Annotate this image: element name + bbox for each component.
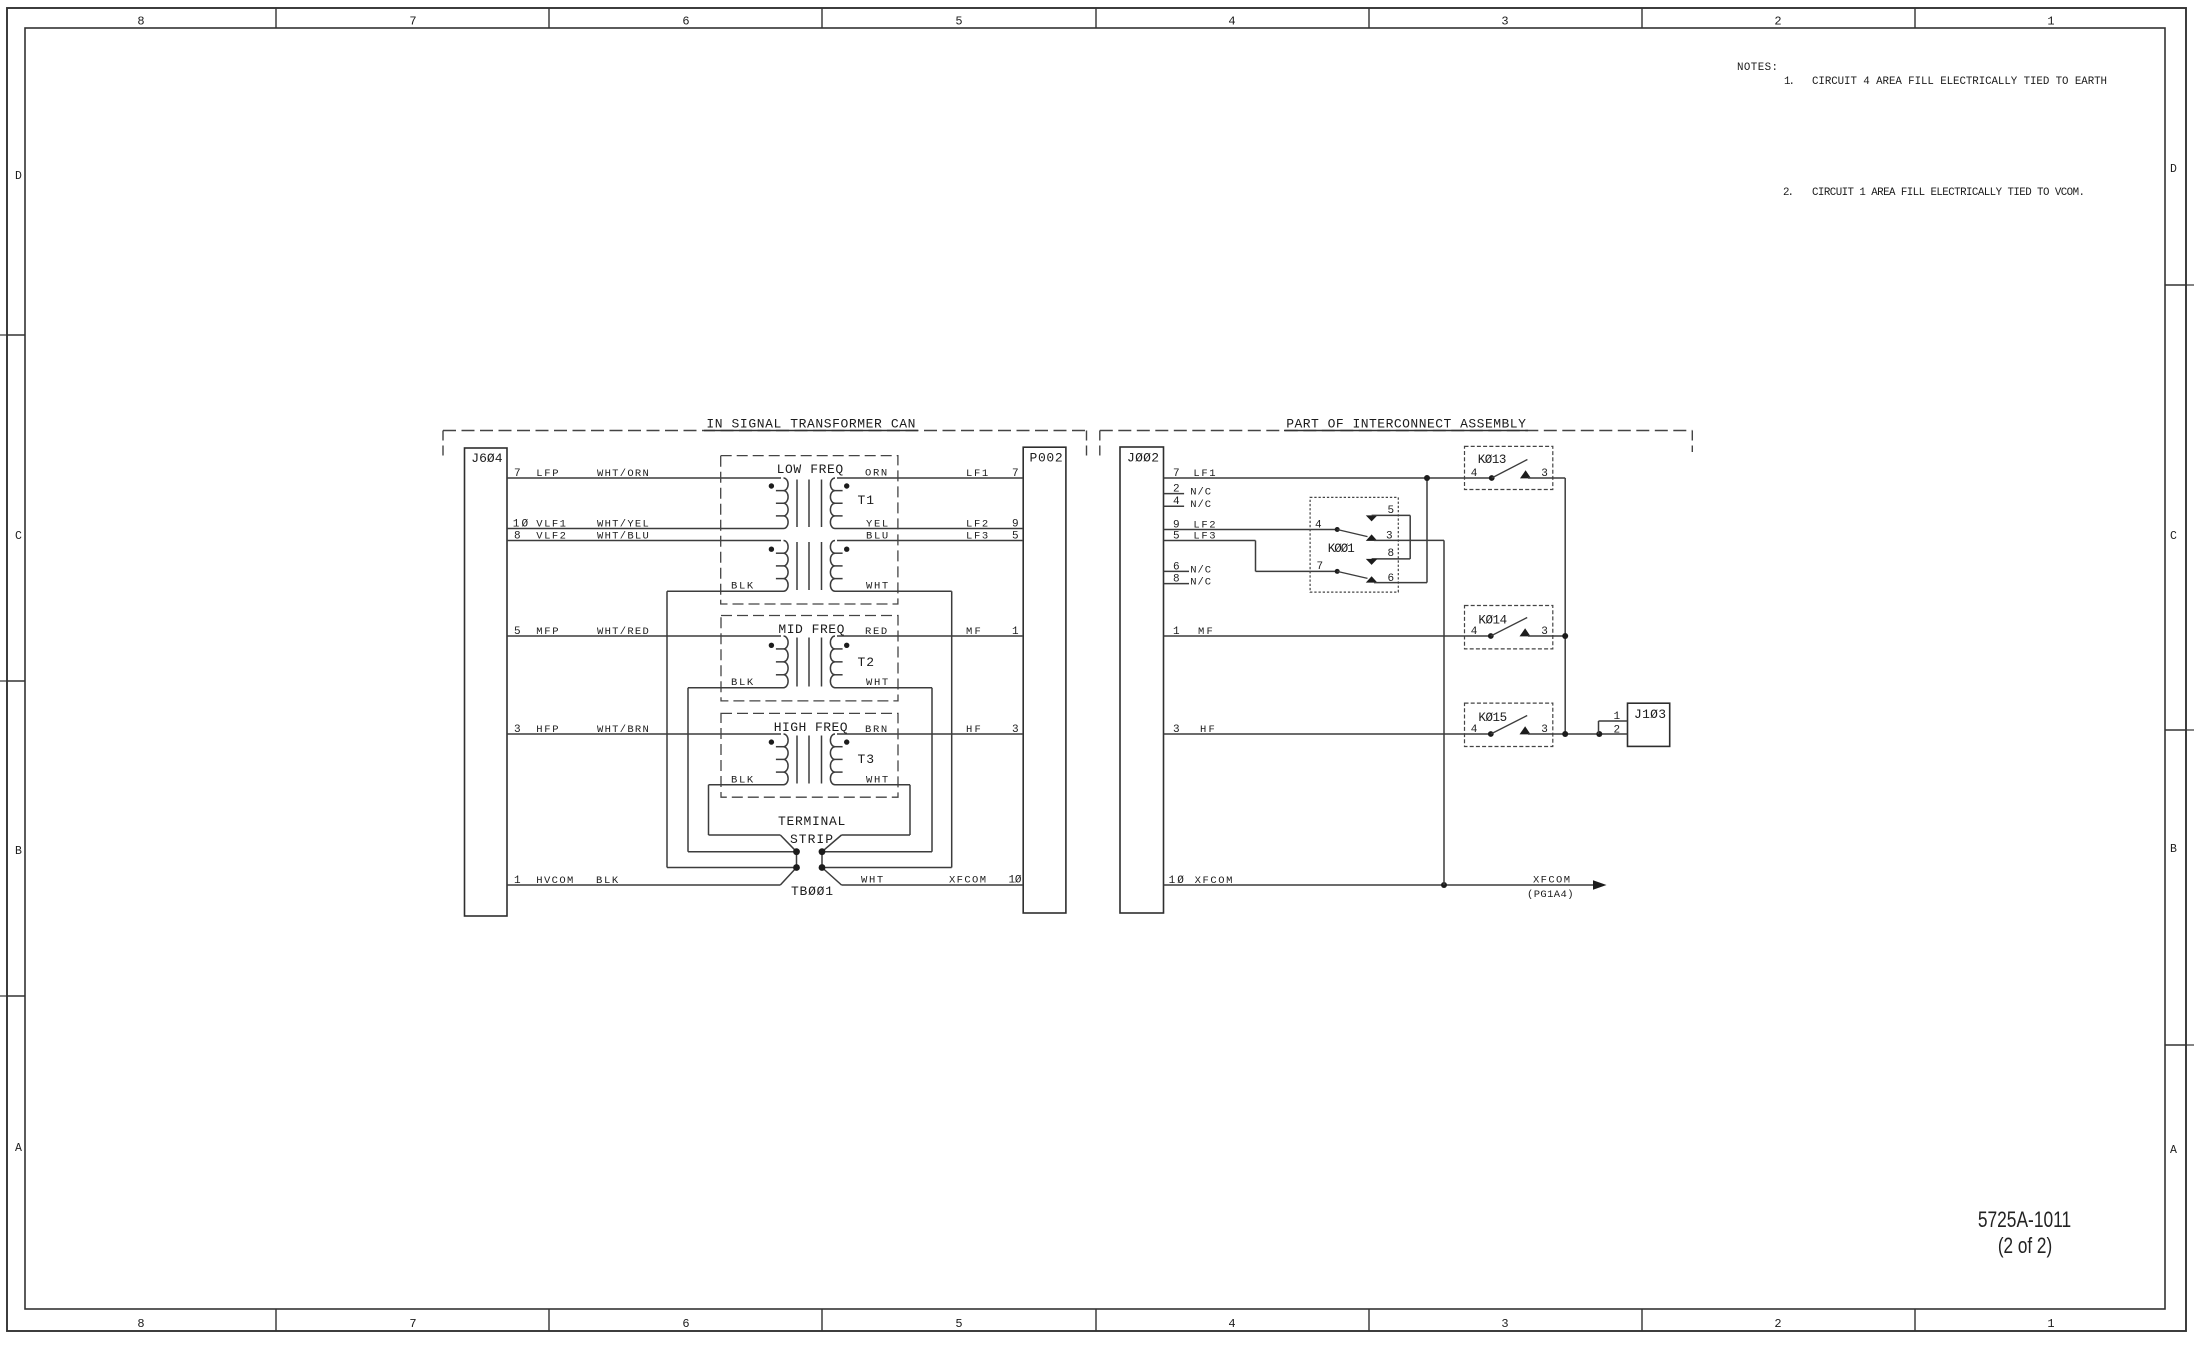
svg-text:N/C: N/C bbox=[1190, 499, 1211, 511]
svg-text:N/C: N/C bbox=[1190, 577, 1211, 589]
svg-text:5: 5 bbox=[1388, 505, 1395, 517]
svg-text:XFCOM: XFCOM bbox=[949, 875, 986, 887]
svg-text:BLK: BLK bbox=[596, 875, 619, 887]
svg-text:N/C: N/C bbox=[1190, 564, 1211, 576]
TB001 terminal link wires bbox=[796, 852, 798, 868]
K001 pin 3 wire bbox=[1374, 539, 1444, 541]
K014 common dot bbox=[1488, 633, 1494, 639]
svg-text:3: 3 bbox=[1501, 15, 1508, 29]
K014 output junction dot bbox=[1562, 633, 1568, 639]
svg-text:WHT/YEL: WHT/YEL bbox=[597, 519, 649, 531]
wire T1 WHT lead bbox=[835, 590, 952, 592]
transformer T1 primary winding upper bbox=[784, 478, 789, 529]
T1 polarity dot lower primary bbox=[769, 547, 774, 552]
wire T1 BLK lead bbox=[667, 590, 784, 592]
transformer T2 enclosure MID FREQ (dashed) bbox=[721, 616, 898, 701]
transformer T3 primary winding bbox=[784, 734, 789, 785]
svg-text:8: 8 bbox=[514, 531, 521, 543]
wire BRN HF to P002 pin 3 bbox=[837, 733, 1023, 735]
K015 pin 3 wire to J103 bbox=[1528, 733, 1628, 735]
wire T2 BLK run to TB001 terminal 1 bbox=[688, 851, 797, 853]
svg-text:7: 7 bbox=[1317, 561, 1324, 573]
connector P002 bbox=[1023, 447, 1066, 913]
svg-text:3: 3 bbox=[1541, 468, 1548, 480]
svg-text:XFCOM: XFCOM bbox=[1195, 875, 1233, 887]
transformer T1 enclosure LOW FREQ (dashed) bbox=[721, 456, 898, 604]
wire HVCOM slant into TB001 terminal 3 bbox=[780, 868, 796, 886]
svg-text:4: 4 bbox=[1228, 1317, 1235, 1331]
J002 pin 8 N/C stub bbox=[1164, 583, 1190, 585]
svg-text:3: 3 bbox=[1386, 531, 1393, 543]
wire J604 pin 7 LFP WHT/ORN bbox=[507, 477, 781, 479]
svg-text:HFP: HFP bbox=[536, 724, 558, 736]
T1 polarity dot lower secondary bbox=[844, 547, 849, 552]
svg-text:4: 4 bbox=[1173, 496, 1180, 508]
svg-text:5: 5 bbox=[1173, 531, 1180, 543]
wire WHT XFCOM to P002 pin 10 bbox=[842, 884, 1024, 886]
svg-text:3: 3 bbox=[1501, 1317, 1508, 1331]
svg-text:1: 1 bbox=[2047, 15, 2054, 29]
wire K013 output down the bus bbox=[1564, 478, 1566, 734]
wire J002 pin 1 MF to K014 bbox=[1164, 635, 1491, 637]
svg-text:N/C: N/C bbox=[1190, 487, 1211, 499]
svg-text:4: 4 bbox=[1471, 724, 1478, 736]
svg-text:WHT: WHT bbox=[861, 875, 883, 887]
K001 pins 5-8 loop wire bbox=[1409, 515, 1411, 559]
K013 NO triangle bbox=[1520, 470, 1531, 478]
wire J604 pin 10 VLF1 WHT/YEL bbox=[507, 528, 784, 530]
svg-text:KØ15: KØ15 bbox=[1478, 711, 1507, 725]
relay K014 enclosure (dashed) bbox=[1465, 606, 1553, 649]
svg-text:CIRCUIT 1 AREA FILL ELECTRICAL: CIRCUIT 1 AREA FILL ELECTRICALLY TIED TO… bbox=[1812, 187, 2085, 199]
enclosure: PART OF INTERCONNECT ASSEMBLY (dashed) bbox=[1100, 430, 1693, 432]
svg-text:2: 2 bbox=[1774, 15, 1781, 29]
wire T2 BLK lead bbox=[688, 687, 784, 689]
T1 polarity dot upper primary bbox=[769, 483, 774, 488]
svg-text:1: 1 bbox=[514, 875, 521, 887]
K001 pin 8 NC triangle bbox=[1366, 559, 1378, 565]
T2 polarity dot primary bbox=[769, 643, 774, 648]
svg-text:LF1: LF1 bbox=[1193, 468, 1215, 480]
svg-text:LF3: LF3 bbox=[966, 531, 988, 543]
K013 contact arm bbox=[1492, 460, 1528, 479]
svg-text:1Ø: 1Ø bbox=[513, 519, 529, 531]
svg-text:RED: RED bbox=[865, 626, 887, 638]
svg-text:8: 8 bbox=[1388, 548, 1395, 560]
K001 contact A NO triangle bbox=[1366, 534, 1378, 541]
svg-text:TERMINAL: TERMINAL bbox=[778, 814, 845, 829]
svg-text:WHT/ORN: WHT/ORN bbox=[597, 468, 649, 480]
svg-text:1: 1 bbox=[1012, 626, 1019, 638]
T2 core lines bbox=[796, 638, 798, 687]
K001 contact B common dot bbox=[1335, 569, 1340, 574]
K014 contact arm bbox=[1491, 618, 1527, 637]
relay K001 enclosure (dotted) bbox=[1310, 497, 1398, 592]
svg-text:IN SIGNAL TRANSFORMER CAN: IN SIGNAL TRANSFORMER CAN bbox=[706, 416, 915, 431]
TB001 terminal dots bbox=[793, 848, 800, 855]
wire T1 WHT vertical to TB001 bbox=[951, 591, 953, 867]
svg-text:3: 3 bbox=[1173, 724, 1180, 736]
svg-text:6: 6 bbox=[682, 15, 689, 29]
svg-text:5725A-1011: 5725A-1011 bbox=[1978, 1208, 2071, 1232]
svg-text:T3: T3 bbox=[858, 752, 875, 767]
svg-text:VLF1: VLF1 bbox=[536, 519, 566, 531]
wire RED MF to P002 pin 1 bbox=[837, 635, 1023, 637]
K001 pin 6 wire bbox=[1374, 582, 1427, 584]
wire J002 pin 10 XFCOM bbox=[1164, 884, 1601, 886]
wire T2 BLK vertical to TB001 bbox=[687, 688, 689, 852]
svg-text:PART OF INTERCONNECT ASSEMBLY: PART OF INTERCONNECT ASSEMBLY bbox=[1286, 416, 1526, 431]
K001 contact B arm bbox=[1337, 571, 1367, 578]
wire YEL LF2 to P002 pin 9 bbox=[835, 528, 1023, 530]
wire J604 pin 3 HFP WHT/BRN bbox=[507, 733, 781, 735]
svg-text:VLF2: VLF2 bbox=[536, 531, 566, 543]
svg-text:8: 8 bbox=[1173, 574, 1180, 586]
K013 pin 3 wire bbox=[1528, 477, 1565, 479]
wire T1 BLK run to TB001 terminal 3 bbox=[667, 867, 797, 869]
connector J103 bbox=[1628, 703, 1670, 746]
svg-text:C: C bbox=[2170, 530, 2177, 543]
K015 common dot bbox=[1488, 731, 1494, 737]
transformer T2 primary winding bbox=[784, 636, 789, 688]
svg-text:5: 5 bbox=[955, 15, 962, 29]
enclosure: IN SIGNAL TRANSFORMER CAN (dashed) bbox=[443, 430, 1087, 432]
wire T2 WHT lead bbox=[835, 687, 932, 689]
wire LF1 branch down to K001 pin 6 bbox=[1426, 478, 1428, 583]
svg-text:MID FREQ: MID FREQ bbox=[778, 622, 844, 637]
XFCOM arrow head bbox=[1593, 880, 1607, 889]
svg-text:4: 4 bbox=[1471, 626, 1478, 638]
svg-text:LOW FREQ: LOW FREQ bbox=[777, 462, 844, 477]
transformer T3 enclosure HIGH FREQ (dashed) bbox=[721, 713, 898, 797]
svg-text:7: 7 bbox=[1012, 468, 1019, 480]
svg-text:J6Ø4: J6Ø4 bbox=[471, 451, 502, 466]
LF1 junction dot bbox=[1424, 475, 1430, 481]
svg-text:A: A bbox=[15, 1142, 22, 1155]
T1 core lines bbox=[796, 480, 798, 528]
wire T2 WHT vertical to TB001 bbox=[931, 688, 933, 852]
svg-text:7: 7 bbox=[514, 468, 521, 480]
svg-text:7: 7 bbox=[409, 1317, 416, 1331]
wire T1 WHT run to TB001 terminal 4 bbox=[822, 867, 952, 869]
svg-text:6: 6 bbox=[682, 1317, 689, 1331]
svg-text:(PG1A4): (PG1A4) bbox=[1527, 889, 1574, 901]
K001 pin 5 NC triangle bbox=[1366, 515, 1378, 521]
K014 NO triangle bbox=[1520, 628, 1531, 636]
K001 contact B NO triangle bbox=[1366, 576, 1378, 582]
svg-text:C: C bbox=[15, 530, 22, 543]
wire ORN LF1 to P002 pin 7 bbox=[837, 477, 1023, 479]
svg-text:LF1: LF1 bbox=[966, 468, 988, 480]
wire T3 WHT bottom run and slant to TB001 terminal 2 bbox=[842, 834, 911, 836]
connector J604 bbox=[465, 448, 508, 916]
K001 pin 8 stub bbox=[1372, 558, 1411, 560]
wire T3 BLK vertical to TB001 bbox=[708, 785, 710, 835]
transformer T2 secondary winding bbox=[830, 636, 835, 688]
svg-text:6: 6 bbox=[1388, 573, 1395, 585]
K015 contact arm bbox=[1491, 716, 1527, 735]
connector J002 bbox=[1120, 447, 1164, 913]
svg-text:B: B bbox=[2170, 843, 2177, 856]
svg-text:B: B bbox=[15, 845, 22, 858]
svg-text:(2 of 2): (2 of 2) bbox=[1998, 1234, 2052, 1259]
wire T3 BLK bottom run and slant to TB001 terminal 1 bbox=[709, 834, 781, 836]
svg-text:4: 4 bbox=[1228, 15, 1235, 29]
svg-text:BRN: BRN bbox=[865, 724, 887, 736]
relay K013 enclosure (dashed) bbox=[1465, 446, 1553, 489]
wire T3 WHT vertical to TB001 bbox=[909, 785, 911, 835]
K014 pin 3 wire bbox=[1528, 635, 1565, 637]
svg-text:HVCOM: HVCOM bbox=[536, 875, 573, 887]
svg-text:MFP: MFP bbox=[536, 626, 558, 638]
svg-text:NOTES:: NOTES: bbox=[1737, 62, 1778, 74]
svg-text:KØØ1: KØØ1 bbox=[1328, 542, 1355, 556]
svg-text:2: 2 bbox=[1774, 1317, 1781, 1331]
wire T2 WHT run to TB001 terminal 2 bbox=[822, 851, 932, 853]
svg-text:TBØØ1: TBØØ1 bbox=[791, 884, 833, 899]
svg-text:J1Ø3: J1Ø3 bbox=[1634, 707, 1666, 722]
svg-text:5: 5 bbox=[1012, 531, 1019, 543]
svg-text:5: 5 bbox=[514, 626, 521, 638]
svg-text:1Ø: 1Ø bbox=[1169, 875, 1185, 887]
K001 contact A arm bbox=[1337, 530, 1367, 537]
T3 polarity dot primary bbox=[769, 739, 774, 744]
T2 polarity dot secondary bbox=[844, 643, 849, 648]
wire J604 pin 1 HVCOM BLK bbox=[507, 884, 780, 886]
svg-text:WHT/RED: WHT/RED bbox=[597, 626, 649, 638]
wire T3 WHT lead bbox=[835, 784, 910, 786]
svg-text:XFCOM: XFCOM bbox=[1533, 875, 1570, 887]
svg-text:T2: T2 bbox=[858, 655, 875, 670]
svg-text:KØ14: KØ14 bbox=[1478, 613, 1507, 627]
wire J002 pin 3 HF to K015 bbox=[1164, 733, 1491, 735]
transformer T3 secondary winding bbox=[830, 734, 835, 785]
svg-text:ORN: ORN bbox=[865, 468, 887, 480]
relay K015 enclosure (dashed) bbox=[1465, 703, 1553, 746]
transformer T1 secondary winding upper bbox=[830, 478, 835, 529]
svg-text:HIGH FREQ: HIGH FREQ bbox=[774, 720, 848, 735]
K001 pin 5 stub bbox=[1372, 514, 1411, 516]
svg-text:9: 9 bbox=[1012, 519, 1019, 531]
T3 polarity dot secondary bbox=[844, 739, 849, 744]
svg-text:5: 5 bbox=[955, 1317, 962, 1331]
svg-text:8: 8 bbox=[137, 15, 144, 29]
svg-text:4: 4 bbox=[1315, 520, 1322, 532]
wire K001 pin 3 down to XFCOM bbox=[1443, 540, 1445, 885]
wire T3 BLK lead bbox=[709, 784, 784, 786]
svg-text:LF3: LF3 bbox=[1193, 531, 1215, 543]
wire J002 pin 7 LF1 bbox=[1164, 477, 1492, 479]
svg-text:2: 2 bbox=[1614, 724, 1621, 736]
svg-text:3: 3 bbox=[1541, 626, 1548, 638]
svg-text:1.: 1. bbox=[1784, 76, 1795, 88]
svg-text:BLU: BLU bbox=[866, 531, 888, 543]
svg-text:WHT/BLU: WHT/BLU bbox=[597, 531, 649, 543]
svg-text:LFP: LFP bbox=[536, 468, 558, 480]
svg-text:2.: 2. bbox=[1783, 187, 1794, 199]
wire BLU LF3 to P002 pin 5 bbox=[837, 540, 1023, 542]
svg-text:1: 1 bbox=[2047, 1317, 2054, 1331]
J103 junction dot bbox=[1596, 731, 1602, 737]
svg-text:3: 3 bbox=[1012, 724, 1019, 736]
HF bus junction dot at K015 output bbox=[1562, 731, 1568, 737]
wire J002 pin 9 LF2 to K001 pin 4 bbox=[1164, 529, 1338, 531]
svg-text:STRIP: STRIP bbox=[790, 832, 833, 847]
svg-text:JØØ2: JØØ2 bbox=[1127, 451, 1159, 466]
svg-text:4: 4 bbox=[1471, 468, 1478, 480]
wire J604 pin 5 MFP WHT/RED bbox=[507, 635, 781, 637]
wire XFCOM slant from TB001 terminal 4 bbox=[822, 868, 842, 886]
J002 pin 2 N/C stub bbox=[1164, 493, 1185, 495]
svg-text:8: 8 bbox=[137, 1317, 144, 1331]
XFCOM junction dot bbox=[1441, 882, 1447, 888]
wire T1 BLK vertical to TB001 bbox=[666, 591, 668, 867]
svg-text:CIRCUIT 4 AREA FILL ELECTRICAL: CIRCUIT 4 AREA FILL ELECTRICALLY TIED TO… bbox=[1812, 76, 2107, 88]
J002 pin 6 N/C stub bbox=[1164, 570, 1190, 572]
svg-text:D: D bbox=[15, 170, 22, 183]
wire J002 pin 5 LF3 to K001 pin 7 bbox=[1164, 540, 1256, 542]
svg-text:7: 7 bbox=[409, 15, 416, 29]
transformer T1 primary winding lower bbox=[784, 541, 789, 592]
svg-text:P002: P002 bbox=[1030, 451, 1063, 466]
svg-text:T1: T1 bbox=[858, 493, 875, 508]
wire J604 pin 8 VLF2 WHT/BLU bbox=[507, 540, 781, 542]
T1 polarity dot upper secondary bbox=[844, 483, 849, 488]
svg-text:D: D bbox=[2170, 163, 2177, 176]
svg-text:1: 1 bbox=[1614, 711, 1621, 723]
svg-text:1Ø: 1Ø bbox=[1009, 875, 1022, 887]
svg-text:7: 7 bbox=[1173, 468, 1180, 480]
svg-text:WHT/BRN: WHT/BRN bbox=[597, 724, 649, 736]
svg-text:YEL: YEL bbox=[866, 519, 888, 531]
svg-text:3: 3 bbox=[514, 724, 521, 736]
svg-text:1: 1 bbox=[1173, 626, 1180, 638]
svg-text:6: 6 bbox=[1173, 561, 1180, 573]
svg-text:2: 2 bbox=[1173, 484, 1180, 496]
K015 NO triangle bbox=[1520, 726, 1531, 734]
J103 pin 1 wire bbox=[1599, 720, 1628, 722]
K013 common dot bbox=[1489, 475, 1495, 481]
T3 core lines bbox=[796, 736, 798, 784]
svg-text:A: A bbox=[2170, 1144, 2177, 1157]
K001 contact A common dot bbox=[1335, 527, 1340, 532]
svg-text:LF2: LF2 bbox=[966, 519, 988, 531]
J002 pin 4 N/C stub bbox=[1164, 505, 1185, 507]
svg-text:3: 3 bbox=[1541, 724, 1548, 736]
transformer T1 secondary winding lower bbox=[830, 541, 835, 592]
svg-text:KØ13: KØ13 bbox=[1478, 453, 1507, 467]
